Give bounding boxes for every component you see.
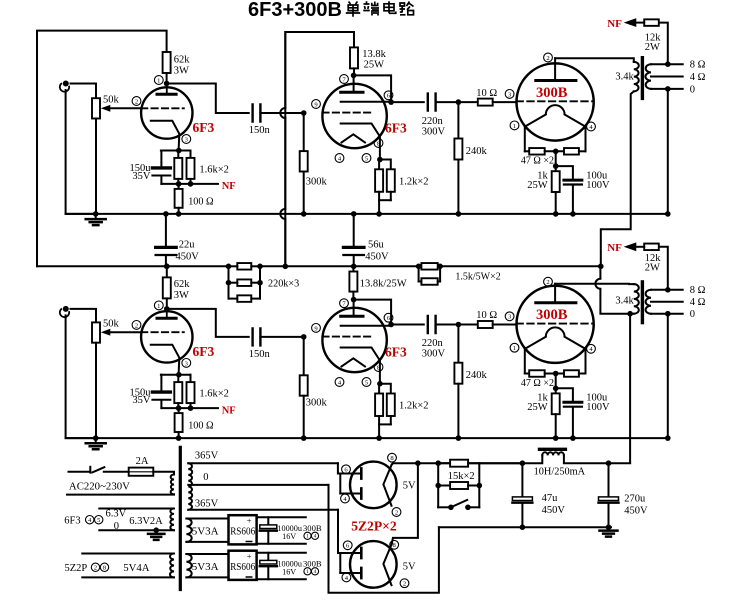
svg-text:2: 2 [546,55,549,62]
resistor 1k 25W (300B cathode) [555,166,557,171]
DC output wires [257,552,306,554]
svg-text:6F3: 6F3 [193,120,215,135]
pentode suppressor+cathode to pin 8 [341,348,380,384]
svg-text:2: 2 [135,322,138,329]
svg-text:10H/250mA: 10H/250mA [534,467,586,478]
5Z2P filament-cathode [383,465,391,506]
junction stage2 B+ riser on rail [283,264,289,270]
svg-text:6F3: 6F3 [385,345,407,360]
svg-text:4: 4 [314,534,317,540]
svg-text:13.8k/25W: 13.8k/25W [360,279,407,290]
pentode control grid (dashed) [322,336,372,338]
resistor 240k (300B grid leak) [457,325,459,363]
svg-text:300B: 300B [303,523,322,533]
300B filament leads down to 47 ohm hum pot [524,128,526,152]
decoupling capacitor 56u 450V [353,214,355,248]
svg-text:NF: NF [607,18,622,30]
svg-text:16V: 16V [282,532,296,541]
cathode network bottom rail [161,183,190,185]
pentode anode [341,315,363,318]
coupling capacitor 220n 300V [428,94,436,111]
secondary tap 8 ohm [651,289,683,291]
wire HT bottom to lower 5Z2P plates [338,510,340,553]
pentode suppressor+cathode to pin 8 [341,124,380,160]
svg-text:1.6k×2: 1.6k×2 [199,165,229,176]
svg-text:25W: 25W [364,60,385,71]
svg-text:270u: 270u [624,493,646,504]
capacitor 100u 100V (300B cathode bypass) [556,388,573,400]
svg-text:50k: 50k [103,95,120,106]
svg-text:2W: 2W [645,263,660,274]
secondary tap 8 ohm [651,63,683,65]
svg-text:RS606: RS606 [230,562,255,573]
svg-text:100V: 100V [586,180,610,191]
svg-text:5V: 5V [403,561,416,572]
HT secondary winding 365-0-365 [188,463,192,510]
300B filament [525,337,546,349]
svg-text:2: 2 [546,279,549,286]
5Z2P anode plates [360,548,363,578]
svg-text:300V: 300V [422,126,446,137]
svg-text:1.2k×2: 1.2k×2 [399,401,429,412]
resistor 13.8k 25W (V2 plate load) [350,47,358,68]
choke 10H/250mA [522,455,542,463]
svg-text:4 Ω: 4 Ω [690,297,706,308]
svg-text:6.3V: 6.3V [106,508,127,519]
svg-text:220n: 220n [422,338,444,349]
wire 62k to V1 plate, node pin 1 [166,298,168,309]
svg-text:450V: 450V [624,505,648,516]
triode cathode [151,345,180,375]
mains transformer core [179,447,182,589]
pentode control grid (dashed) [322,112,372,114]
svg-text:150n: 150n [249,125,271,136]
feedback arrow to NF [624,242,637,251]
wire V1 cathode to cathode network [178,150,180,152]
5Z2P anode plates [360,468,363,498]
svg-text:3W: 3W [174,290,189,301]
rectifier tube 5Z2P envelope [350,462,397,509]
svg-text:220k×3: 220k×3 [268,279,299,290]
HT 365V top wire [188,462,338,464]
svg-text:365V: 365V [195,451,219,462]
svg-text:10 Ω: 10 Ω [476,310,497,321]
resistors 47 ohm x2 (hum balance) [525,150,529,152]
wire 150n to V2 grid [260,112,303,114]
svg-text:NF: NF [607,242,622,254]
wire V2 grid to grid leak [303,113,305,151]
tube 300B output triode, channel B [517,286,594,363]
resistor 240k (300B grid leak) [457,102,459,138]
svg-text:2: 2 [94,565,97,572]
DC output wires [257,516,306,518]
output transformer TB primary 3.4k [555,283,634,285]
tube envelope [141,311,192,362]
ground symbol [95,438,97,443]
svg-text:0: 0 [690,309,695,320]
decoupling capacitor 22u 450V [165,214,167,248]
coupling capacitor 150n [253,328,261,345]
svg-text:8 Ω: 8 Ω [690,285,706,296]
svg-text:1.2k×2: 1.2k×2 [399,177,429,188]
svg-text:2: 2 [395,509,398,516]
svg-text:5V3A: 5V3A [192,561,219,573]
wire jack to volume pot [71,309,97,323]
stage2 B+ riser crossovers [284,32,286,108]
wire pot wiper to V1 grid [110,107,141,109]
svg-text:25W: 25W [527,180,548,191]
svg-text:6F3: 6F3 [385,121,407,136]
svg-text:2: 2 [403,581,406,588]
HT 0 return wire [329,485,439,593]
capacitor 100u 100V (300B cathode bypass) [556,166,573,178]
NF feedback tap wire [191,407,219,409]
svg-text:240k: 240k [466,370,488,381]
wire V1 plate out to coupling cap [167,309,249,337]
filter capacitor 47u 450V [521,463,523,497]
svg-text:240k: 240k [466,146,488,157]
svg-text:6F3+300B: 6F3+300B [248,0,342,21]
svg-text:25W: 25W [527,402,548,413]
mains return wire [67,493,174,495]
resistor 100 ohm (feedback return) [178,184,180,189]
300B grid (dashed) [517,323,594,325]
svg-text:NF: NF [222,181,236,192]
cathode resistors 1.2k x2 (V2, parallel pair) [377,381,383,387]
coupling capacitor 150n [253,105,261,122]
svg-text:300k: 300k [306,177,328,188]
svg-text:47u: 47u [542,493,559,504]
svg-text:47 Ω ×2: 47 Ω ×2 [521,378,554,389]
svg-text:47 Ω ×2: 47 Ω ×2 [521,156,554,167]
svg-text:50k: 50k [103,319,120,330]
wire to first filter node [479,462,522,464]
svg-text:22u: 22u [179,240,196,251]
resistor 300k (V2 grid leak) [300,151,308,171]
resistor 13.8k 25W (V2 plate load) [349,272,357,292]
NF feedback tap wire [191,183,219,185]
resistor 1k 25W (300B cathode) [555,388,557,393]
svg-text:300B: 300B [536,85,568,101]
svg-text:1: 1 [513,345,516,352]
channel B: input jack JB [63,306,69,312]
svg-text:4: 4 [314,569,317,575]
svg-text:365V: 365V [195,499,219,510]
svg-text:1: 1 [513,123,516,130]
svg-text:300B: 300B [303,559,322,569]
svg-text:300k: 300k [306,398,328,409]
wire pot bottom to ground bus [95,119,97,214]
300B filament [525,115,546,127]
cathode network top rail [161,374,191,376]
resistor 300k (V2 grid leak) [300,375,308,395]
wire 220n to grid node [436,324,459,326]
wire jack ground down to ground bus [66,315,96,438]
svg-text:NF: NF [222,405,236,416]
svg-text:+: + [247,516,252,526]
svg-text:1: 1 [306,534,309,540]
feedback arrow to NF [624,18,637,27]
B+ feed to 13.8k plate resistor [285,32,354,266]
mains input wire [69,471,89,473]
secondary tap 0 [651,313,683,315]
svg-text:62k: 62k [174,279,191,290]
svg-text:6F3: 6F3 [193,344,215,359]
PSU ground symbol [608,527,610,530]
mains transformer primary winding [171,475,174,495]
secondary tap 4 ohm [651,76,683,78]
capacitor 10000u 16V (filament supply filter) [267,517,269,525]
300B filament leads down to 47 ohm hum pot [524,350,526,374]
B+ feed wire to 62k [37,31,167,267]
tube 300B output triode, channel A [517,63,594,140]
wire B+ down to channel B transformer primary (with crossover) [599,266,601,278]
svg-text:6F3: 6F3 [64,516,80,527]
svg-text:35V: 35V [132,395,151,406]
wire V1 cathode to cathode network [178,373,180,375]
resistors 220k x3 (B+ dropper, three in parallel) [226,264,232,270]
tube envelope [141,87,192,138]
triode cathode [151,121,180,151]
pentode anode [341,91,363,94]
pentode filament V shape, pins 4 and 5 [342,134,366,142]
svg-text:5V3A: 5V3A [192,526,219,538]
svg-text:13.8k: 13.8k [362,49,386,60]
capacitor 150u 35V (cathode bypass) [160,151,162,167]
svg-text:100 Ω: 100 Ω [188,196,214,207]
wire pin6 to coupling cap 220n [391,324,424,326]
svg-text:100 Ω: 100 Ω [188,421,214,432]
svg-text:2A: 2A [136,456,149,467]
300B anode [536,79,576,82]
pentode screen grid line to pin 6 [341,325,391,327]
cathode network bottom rail [161,407,190,409]
triode grid (dashed) [141,331,184,333]
svg-text:100V: 100V [586,402,610,413]
svg-text:RS606: RS606 [230,527,255,538]
ground bus [66,213,668,215]
anode bracket [339,553,341,573]
secondary tap 0 [651,88,683,90]
B+ rail [37,265,229,267]
wire 0 tap to ground bus [667,89,669,214]
svg-text:0: 0 [690,84,695,95]
svg-text:0: 0 [114,521,119,532]
svg-text:5Z2P×2: 5Z2P×2 [351,519,397,534]
tube V2B 6F3 pentode section [322,308,386,372]
svg-text:3.4k: 3.4k [615,72,634,83]
svg-text:450V: 450V [365,252,389,263]
wire pin7 to pin6 (triode strapping) [354,75,392,102]
pentode filament V shape, pins 4 and 5 [342,358,366,366]
pentode screen grid line to pin 6 [341,101,391,103]
svg-text:1: 1 [306,569,309,575]
HT 365V bottom wire [188,509,338,511]
pot wiper arrow [101,329,111,336]
svg-text:35V: 35V [132,171,151,182]
wire B+ from PSU up to transformer node [629,314,631,463]
svg-text:10 Ω: 10 Ω [476,88,497,99]
triode anode [157,93,176,96]
svg-text:8: 8 [103,565,106,572]
resistors 1.5k/5W x2 (B+ filter, parallel pair) [421,263,437,270]
wire choke output to B+ riser [609,462,631,465]
negative rail [439,526,611,528]
wire fuse to mains transformer primary [153,472,174,475]
wire pot bottom to ground bus [95,343,97,438]
cathode resistors 1.2k x2 (V2, parallel pair) [377,157,383,163]
resistors 47 ohm x2 (hum balance) [525,373,529,375]
svg-text:1.5k/5W×2: 1.5k/5W×2 [455,272,500,283]
svg-text:3W: 3W [174,66,189,77]
svg-text:450V: 450V [542,505,566,516]
output transformer TA secondary [645,64,651,89]
anode bracket [339,474,341,494]
bridge rectifier RS606 [229,551,257,580]
resistor 62k 3W (V1 plate load) [163,277,171,298]
title chinese characters dan-duan-dian-lu (simplified strokes) [346,2,360,17]
wire 0 tap to ground bus [667,314,669,438]
soft start resistors 15k x2 with bypass switch [435,460,441,466]
6.3V winding ground [153,527,159,533]
capacitor 10000u 16V (filament supply filter) [267,553,269,561]
resistor 100 ohm (feedback return) [178,408,180,413]
potentiometer 50k (volume) [92,98,100,118]
svg-text:220n: 220n [422,116,444,127]
resistor 10 ohm (grid stopper) [458,324,477,326]
svg-text:5: 5 [97,517,100,524]
mains switch [89,467,91,473]
wire V2 grid to grid leak [303,337,305,375]
svg-text:6.3V2A: 6.3V2A [129,516,163,527]
svg-text:300B: 300B [536,307,568,323]
rectifier heater winding 5V 4A [170,554,174,578]
svg-text:3.4k: 3.4k [615,296,634,307]
secondary tap 4 ohm [651,301,683,303]
filter capacitor 270u 450V [606,460,612,466]
B+ node joining both output transformers [598,264,604,270]
svg-text:2: 2 [135,98,138,105]
output transformer TA primary 3.4k [555,58,634,62]
triode anode [157,317,176,320]
standby switch [438,506,451,508]
potentiometer 50k (volume) [92,322,100,342]
wire 62k to V1 plate, node pin 1 [166,73,168,84]
wire upper 5Z2P cathode to B+ node [392,463,523,465]
300B grid (dashed) [517,100,594,102]
coupling capacitor 220n 300V [428,316,436,333]
rectifier tube 5Z2P envelope [350,541,397,588]
ground symbol [95,214,97,219]
svg-text:450V: 450V [176,252,200,263]
wire lower 5Z2P cathode to B+ node [392,463,418,544]
wire pot wiper to V1 grid [110,331,141,333]
svg-text:5V4A: 5V4A [123,562,150,574]
svg-text:62k: 62k [174,55,191,66]
wire 150n to V2 grid [260,336,303,338]
svg-text:5Z2P: 5Z2P [65,563,88,574]
B+ feed wire to 62k [166,266,168,277]
svg-text:15k×2: 15k×2 [448,471,475,482]
feedback resistor 12k 2W [659,247,668,290]
transformer core [641,58,644,99]
wire pin6 to coupling cap 220n [391,101,424,103]
pot wiper arrow [101,105,111,112]
wire hum pot center to cathode bias node [555,151,557,166]
capacitor 150u 35V (cathode bypass) [160,375,162,391]
feedback resistor 12k 2W [659,23,668,65]
resistor 1.6k x2 (cathode bias, two in parallel) [177,151,179,158]
filament winding 5V 3A [186,519,191,542]
svg-text:1: 1 [157,77,160,84]
fuse 2A [104,471,129,473]
svg-text:300V: 300V [422,349,446,360]
bridge rectifier RS606 [229,515,257,544]
wire B+ up to channel A transformer primary [601,91,634,266]
5Z2P filament-cathode [383,544,391,585]
svg-text:1: 1 [157,303,160,310]
ground bus [66,437,668,439]
HT 0V tap wire [188,484,328,486]
resistor 62k 3W (V1 plate load) [163,52,171,73]
svg-text:8 Ω: 8 Ω [690,60,706,71]
output transformer TB secondary [646,290,651,314]
wire 220n to grid node [436,101,459,103]
resistor 1.6k x2 (cathode bias, two in parallel) [177,375,179,382]
svg-text:1.6k×2: 1.6k×2 [199,389,229,400]
wire jack to volume pot [71,84,97,99]
svg-text:56u: 56u [368,240,385,251]
filament winding 5V 3A [186,554,191,577]
triode grid (dashed) [141,107,184,109]
svg-text:16V: 16V [282,567,296,576]
cathode network top rail [161,150,191,152]
wire pin7 to pin6 (triode strapping) [354,300,392,325]
transformer core [641,282,644,323]
svg-text:+: + [247,551,252,561]
wire 10 ohm to 300B grid [493,324,517,326]
wire HT top to upper 5Z2P plates [338,463,340,473]
svg-text:4 Ω: 4 Ω [690,72,706,83]
svg-text:AC220~230V: AC220~230V [69,481,130,493]
svg-text:0: 0 [203,472,208,483]
tube V2A 6F3 pentode section [322,84,386,148]
channel A: input jack JA [63,81,69,87]
B+ feed to 13.8k plate resistor [352,266,354,271]
svg-text:5V: 5V [403,480,416,491]
wire 10 ohm to 300B grid [493,101,517,103]
wire jack ground down to ground bus [66,90,96,214]
resistor 10 ohm (grid stopper) [458,101,477,103]
svg-text:2W: 2W [645,42,660,53]
svg-text:150n: 150n [249,349,271,360]
wire hum pot center to cathode bias node [555,374,557,389]
heater winding 6.3V 2A [170,508,174,530]
300B anode [536,301,576,304]
wire V1 plate out to coupling cap [167,84,249,114]
